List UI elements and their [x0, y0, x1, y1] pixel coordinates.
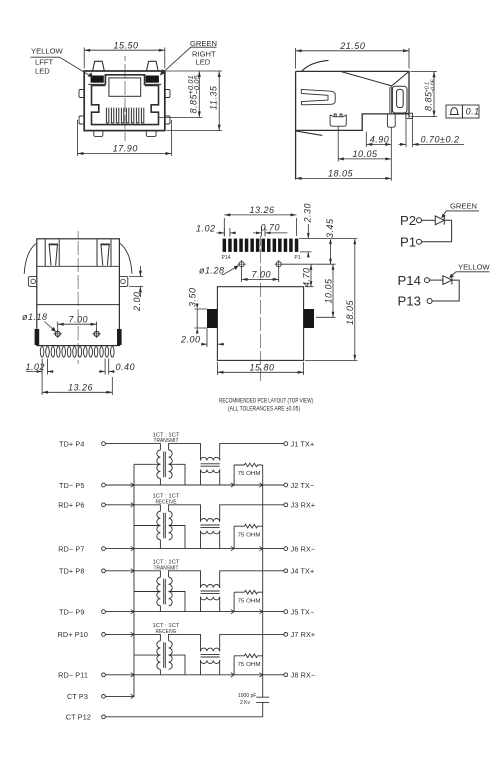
choke L3 core: [201, 591, 220, 593]
dim 10.05: [316, 264, 336, 317]
left latch tab (from bottom): [45, 240, 59, 267]
pin comb (14 oval pins): [40, 347, 114, 358]
svg-text:21.50: 21.50: [339, 41, 365, 51]
ext line from crown: [337, 127, 339, 162]
wire bottom rail P5 to J2: [105, 484, 284, 486]
wire P4 top rail: [105, 444, 160, 450]
svg-text:7.00: 7.00: [69, 314, 89, 324]
choke L1 bottom winding: [201, 470, 220, 473]
dim 21.50: [296, 41, 409, 69]
svg-text:15.80: 15.80: [250, 362, 275, 372]
svg-text:TD− P5: TD− P5: [59, 481, 84, 490]
line under left LED: [88, 83, 106, 85]
svg-text:8.85: 8.85: [424, 91, 434, 111]
transformer T3 secondary winding: [169, 577, 173, 606]
common rail right: [262, 465, 264, 697]
wire P8 top rail: [105, 571, 160, 577]
contact comb (8 teeth): [106, 108, 143, 123]
svg-text:YELLOW: YELLOW: [458, 262, 490, 271]
left top latch tab: [93, 61, 105, 71]
svg-text:75 OHM: 75 OHM: [238, 598, 261, 604]
svg-text:18.05: 18.05: [328, 168, 354, 178]
wire choke to J7: [220, 634, 284, 651]
back wall line: [37, 265, 120, 267]
pin labels left column: [58, 439, 91, 721]
svg-text:3.45: 3.45: [325, 218, 335, 238]
center tap rail left: [133, 464, 135, 696]
mount hole left: [237, 260, 245, 268]
dim 0.70±0.2: [399, 134, 465, 146]
svg-text:2.30: 2.30: [303, 203, 313, 224]
pin labels right column: [291, 439, 316, 679]
wire bottom rail P7 to J6: [105, 548, 284, 550]
right spring arc: [120, 244, 132, 274]
svg-text:10.05: 10.05: [323, 278, 333, 304]
LED SCHEMATIC GROUP: [398, 202, 491, 309]
choke L4 bottom winding: [201, 660, 220, 663]
svg-text:18.05: 18.05: [345, 299, 355, 325]
TRANSFORMER SCHEMATIC GROUP: [58, 432, 316, 721]
wire primary center tap: [134, 463, 160, 465]
svg-text:J1 TX+: J1 TX+: [291, 439, 315, 448]
transformer T2 secondary winding: [169, 511, 173, 540]
dim 7.00 (bottom view): [58, 314, 97, 330]
transformer T4 secondary winding: [169, 641, 173, 670]
svg-text:−0.05: −0.05: [192, 75, 201, 95]
transformer T1 secondary winding: [169, 450, 173, 479]
thick shield walls bottom: [37, 329, 119, 345]
dim 17.90: [78, 120, 172, 156]
top latch arc: [302, 60, 329, 71]
green LED window (right): [146, 76, 159, 83]
transformer T3 core: [164, 579, 166, 605]
body outline square: [217, 287, 303, 361]
svg-text:P14: P14: [222, 255, 231, 261]
svg-text:RD+ P6: RD+ P6: [58, 501, 84, 510]
svg-text:P1: P1: [400, 234, 416, 249]
right latch tab (from bottom): [97, 240, 111, 267]
svg-text:RECOMMENDED PCB LAYOUT (TOP VI: RECOMMENDED PCB LAYOUT (TOP VIEW): [219, 398, 313, 404]
svg-text:J8 RX−: J8 RX−: [291, 671, 316, 680]
svg-text:LED: LED: [196, 57, 211, 66]
svg-text:RD+ P10: RD+ P10: [58, 630, 88, 639]
wire primary bottom: [159, 479, 161, 485]
latch spring fork: [301, 89, 335, 104]
wire CT P12 to capacitor: [105, 702, 262, 716]
svg-text:TD+ P8: TD+ P8: [59, 567, 84, 576]
centerline: [260, 236, 262, 381]
SIDE VIEW GROUP: [296, 41, 480, 181]
transformer T3 primary winding: [157, 577, 161, 606]
yellow LED window (left): [91, 76, 104, 83]
plug top slot inner: [109, 78, 141, 96]
left ear with hole: [28, 277, 36, 287]
wire choke to J4: [220, 571, 284, 588]
left side ear lower: [79, 116, 84, 124]
wire P10 top rail: [105, 634, 160, 640]
through-hole pin: [387, 114, 395, 127]
svg-text:GREEN: GREEN: [190, 39, 217, 48]
resistor R3 75 ohm: [234, 590, 263, 611]
resistor labels 75 OHM: [238, 471, 261, 668]
svg-text:1.02: 1.02: [196, 223, 216, 233]
dim 7.00 (pcb): [242, 268, 279, 283]
svg-text:75 OHM: 75 OHM: [238, 532, 261, 538]
main cavity outline: [92, 86, 159, 125]
svg-text:CT P12: CT P12: [66, 713, 91, 722]
choke L2 top winding: [201, 519, 220, 522]
dim 18.05 (pcb): [305, 239, 358, 361]
shield tab hole outer: [392, 86, 407, 113]
caption: [219, 398, 313, 412]
wire secondary center tap: [169, 526, 185, 549]
svg-text:YELLOW: YELLOW: [31, 46, 63, 55]
left spring arc: [24, 244, 36, 274]
junction marks: [131, 483, 263, 699]
ext line step: [365, 132, 367, 148]
svg-text:0.1: 0.1: [466, 107, 480, 117]
inner vertical edge: [389, 87, 391, 113]
right top latch tab: [147, 61, 159, 71]
left bottom post: [94, 131, 103, 137]
dim 2.30: [299, 203, 358, 257]
svg-text:J7 RX+: J7 RX+: [291, 630, 316, 639]
left side ear upper: [79, 90, 84, 98]
svg-text:17.90: 17.90: [113, 144, 138, 154]
terminal circles right: [284, 442, 288, 677]
choke L1 core: [201, 464, 220, 466]
transformer T2 core: [164, 513, 166, 539]
dim 2.00 (pcb): [180, 329, 224, 348]
right bottom post: [146, 131, 156, 137]
svg-text:P13: P13: [398, 294, 421, 309]
dim 15.50: [84, 40, 165, 68]
svg-text:(ALL TOLERANCES ARE ±0.05): (ALL TOLERANCES ARE ±0.05): [228, 406, 300, 412]
label ø1.28 with leader: [199, 265, 239, 275]
wire P2 to LED: [422, 219, 436, 221]
PCB LAYOUT GROUP: [180, 203, 358, 412]
wire LED to corner: [422, 220, 452, 241]
pad labels P14 / P1: [222, 255, 301, 261]
dim 3.45: [282, 218, 336, 264]
right side ear upper: [165, 90, 170, 98]
choke L2 bottom winding: [201, 531, 220, 534]
wire primary bottom: [159, 540, 161, 549]
transformer labels: [153, 432, 180, 635]
choke L3 bottom winding: [201, 597, 220, 600]
wire choke bottom legs: [201, 531, 220, 549]
svg-text:75 OHM: 75 OHM: [238, 471, 261, 477]
mid body line: [37, 304, 120, 306]
dim 8.85 +0.01/-0.05: [159, 71, 222, 117]
transformer T1 primary winding: [157, 450, 161, 479]
svg-text:13.26: 13.26: [250, 205, 275, 215]
wire secondary center tap: [169, 592, 185, 612]
dim 0.40: [99, 359, 135, 375]
svg-text:2.00: 2.00: [132, 291, 142, 312]
svg-text:P14: P14: [398, 273, 421, 288]
wire primary center tap: [134, 591, 160, 593]
svg-text:LED: LED: [35, 66, 50, 75]
bottom latch diagonal: [296, 131, 323, 136]
svg-text:J3 RX+: J3 RX+: [291, 501, 316, 510]
wire choke to J3: [220, 505, 284, 522]
dim 3.50: [188, 287, 208, 333]
svg-text:4.90: 4.90: [370, 134, 390, 144]
right side ear lower: [165, 116, 170, 124]
label YELLOW LFFT LED: [31, 46, 63, 75]
svg-text:TD− P9: TD− P9: [59, 607, 84, 616]
right hole post: [92, 330, 100, 338]
svg-text:0.70±0.2: 0.70±0.2: [421, 134, 460, 144]
svg-text:3.50: 3.50: [188, 287, 198, 307]
dim 13.26 (pcb top): [224, 205, 296, 236]
green LED D1: [435, 216, 444, 225]
svg-text:RD− P11: RD− P11: [58, 671, 88, 680]
svg-text:ø1.28: ø1.28: [199, 265, 225, 275]
wire secondary center tap: [169, 655, 185, 675]
ext line pin center: [390, 128, 392, 181]
resistor R2 75 ohm: [234, 524, 263, 548]
choke L4 top winding: [201, 648, 220, 651]
dim 1.02 (pcb): [196, 223, 236, 236]
wire primary bottom: [159, 606, 161, 612]
wire secondary center tap: [169, 464, 185, 485]
wire primary center tap: [134, 654, 160, 656]
14 solder pads P14..P1: [223, 239, 299, 252]
centerline: [124, 56, 126, 141]
label YELLOW with leader: [449, 262, 490, 278]
svg-text:75 OHM: 75 OHM: [238, 662, 261, 668]
label GREEN RIGHT LED: [190, 39, 217, 67]
svg-text:CT P3: CT P3: [67, 692, 88, 701]
mount hole right: [275, 260, 283, 268]
choke L1 top winding: [201, 457, 220, 460]
transformer T4 core: [164, 642, 166, 668]
centerline: [77, 231, 79, 364]
dim 4.90: [366, 134, 391, 146]
wire secondary top to choke: [169, 505, 201, 522]
svg-text:LFFT: LFFT: [35, 58, 54, 67]
terminal circles left: [102, 442, 106, 719]
ext lines rear foot: [406, 119, 413, 147]
svg-text:10.05: 10.05: [353, 149, 379, 159]
dim 18.05: [296, 168, 392, 180]
svg-text:J5 TX−: J5 TX−: [291, 607, 315, 616]
wire LED to corner: [432, 280, 459, 301]
wire CT P3: [105, 695, 134, 697]
svg-text:TD+ P4: TD+ P4: [59, 439, 84, 448]
choke L4 core: [201, 655, 220, 657]
connector body outline: [84, 71, 165, 131]
dim 15.80: [217, 362, 303, 375]
FRONT VIEW GROUP: [31, 39, 223, 156]
svg-text:P2: P2: [400, 213, 416, 228]
svg-text:GREEN: GREEN: [450, 202, 477, 211]
label ø1.18 with leader: [22, 312, 56, 332]
svg-text:−0.06: −0.06: [430, 79, 436, 93]
wire P14 to LED: [430, 279, 443, 281]
resistor R1 75 ohm: [234, 463, 263, 485]
svg-text:0.70: 0.70: [261, 222, 281, 232]
transformer T1 core: [164, 452, 166, 478]
body outline: [296, 71, 409, 179]
svg-text:2.00: 2.00: [180, 334, 201, 344]
svg-text:11.35: 11.35: [208, 85, 218, 110]
choke L3 top winding: [201, 585, 220, 588]
svg-text:7.00: 7.00: [252, 270, 272, 280]
dim 11.35: [167, 71, 223, 131]
wire secondary top to choke: [169, 444, 201, 461]
shield tab hole inner: [397, 89, 404, 107]
dim 1.02: [26, 359, 54, 375]
svg-text:J2 TX−: J2 TX−: [291, 481, 315, 490]
BOTTOM VIEW GROUP: [22, 231, 143, 395]
wire bottom rail P11 to J8: [105, 674, 284, 676]
svg-text:0.40: 0.40: [116, 362, 136, 372]
transformer T2 primary winding: [157, 511, 161, 540]
capacitor C1 1000pF 2Kv: [256, 697, 269, 702]
dim 10.05: [338, 149, 392, 160]
P13 terminal circle: [427, 299, 432, 304]
left hole post: [54, 330, 62, 338]
wire P6 top rail: [105, 505, 160, 511]
wire choke bottom legs: [201, 470, 220, 486]
dim 2.00 (bottom view): [129, 266, 143, 312]
svg-text:ø1.18: ø1.18: [22, 312, 48, 322]
svg-text:4.70: 4.70: [301, 267, 311, 287]
wire secondary top to choke: [169, 571, 201, 588]
svg-text:15.50: 15.50: [114, 40, 139, 50]
profile tolerance frame: [446, 105, 480, 118]
P14 terminal circle: [425, 278, 430, 283]
dim 13.26 (bottom view): [42, 364, 112, 395]
wire secondary top to choke: [169, 634, 201, 651]
leader green LED: [160, 47, 217, 75]
top bevel edges: [340, 71, 409, 113]
body outline: [37, 239, 120, 346]
svg-text:13.26: 13.26: [68, 383, 93, 393]
wire bottom rail P9 to J5: [105, 611, 284, 613]
resistor R4 75 ohm: [234, 654, 263, 675]
dim 4.70: [301, 264, 313, 287]
right ear with hole: [119, 277, 127, 287]
wire primary bottom: [159, 669, 161, 674]
rear smt foot: [406, 113, 413, 118]
svg-text:J6 RX−: J6 RX−: [291, 544, 316, 553]
svg-text:1000 pF: 1000 pF: [238, 693, 256, 699]
wire choke to J1: [220, 444, 284, 461]
wire choke bottom legs: [201, 597, 220, 612]
transformer T4 primary winding: [157, 641, 161, 670]
svg-text:2 Kv: 2 Kv: [240, 700, 251, 706]
P2 terminal circle: [417, 218, 422, 223]
choke L2 core: [201, 525, 220, 527]
svg-text:P1: P1: [295, 255, 301, 261]
svg-text:RD− P7: RD− P7: [58, 544, 84, 553]
plug top slot outer: [105, 75, 144, 85]
crown standoff post: [330, 114, 346, 126]
wire primary center tap: [134, 525, 160, 527]
dim 0.70 (pcb): [253, 222, 287, 236]
leader yellow LED: [31, 57, 94, 77]
capacitor label: [238, 693, 256, 706]
yellow LED D2: [443, 276, 452, 285]
wire choke bottom legs: [201, 660, 220, 675]
left ear pad (black): [207, 309, 217, 328]
P1 terminal circle: [417, 239, 422, 244]
label GREEN with leader: [442, 202, 480, 218]
svg-text:8.85: 8.85: [189, 93, 199, 113]
right ear pad (black): [304, 309, 314, 328]
line under right LED: [144, 83, 162, 85]
svg-text:J4 TX+: J4 TX+: [291, 567, 315, 576]
dim 8.85 +0.1/-0.06 (side): [411, 71, 438, 116]
